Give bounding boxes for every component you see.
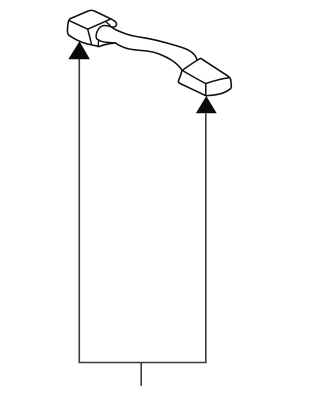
wire left vertical leader: [78, 59, 80, 363]
wire right vertical leader: [205, 114, 207, 363]
connector left front crease J-bottom: [88, 29, 92, 45]
connector right ridge W-S: [183, 71, 206, 84]
connector left top-face crease L1-J: [69, 21, 87, 30]
connector left facet edge: [97, 40, 99, 46]
connector left top-face crease J-R: [88, 19, 111, 29]
connector right ridge W-V: [182, 60, 197, 70]
connector left inner curl: [106, 22, 111, 27]
node left arrowhead: [68, 41, 90, 59]
node right arrowhead: [196, 96, 217, 113]
wire bottom horizontal: [79, 362, 207, 364]
connector right ridge S-B: [205, 84, 207, 96]
cable assembly silhouette: [67, 10, 231, 95]
connector left boot blob: [96, 26, 116, 44]
wire center stub: [140, 363, 142, 386]
connector right ridge S-E: [206, 78, 230, 84]
